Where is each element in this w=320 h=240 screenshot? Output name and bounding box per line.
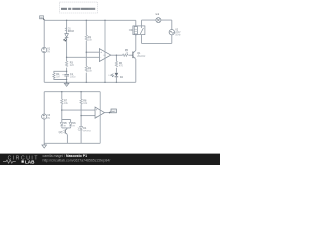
svg-text:LED: LED: [109, 75, 114, 77]
wire parallel pair ties: [62, 120, 71, 128]
svg-text:10k: 10k: [64, 102, 69, 105]
ground inner mark: [65, 84, 68, 86]
svg-text:9V: 9V: [47, 117, 50, 120]
wire bottom rail: [44, 81, 136, 83]
wire opamp U1 minus input: [67, 56, 100, 58]
wire opamp U2 plus input: [62, 109, 95, 111]
node flag out: [109, 109, 117, 113]
wire lower riser1: [61, 92, 63, 120]
voltage source V3: [42, 114, 51, 120]
voltage source V1: [42, 47, 51, 53]
svg-text:+: +: [96, 108, 98, 112]
svg-text:50Hz: 50Hz: [175, 34, 181, 36]
svg-text:D2: D2: [120, 76, 124, 79]
svg-text:1M: 1M: [56, 75, 59, 78]
svg-text:+: +: [100, 50, 102, 54]
wire opamp U2 minus input: [81, 115, 95, 117]
svg-text:L1: L1: [156, 12, 160, 16]
svg-text:IR: IR: [73, 126, 76, 128]
svg-text:10k: 10k: [83, 102, 88, 105]
svg-text:100u: 100u: [70, 76, 76, 79]
photodiode D4: [78, 127, 92, 133]
phototransistor Q2: [59, 128, 68, 143]
wire relay switch top: [141, 20, 143, 28]
wire relay coil to Q1 collector: [135, 35, 137, 36]
resistor R1: [85, 35, 93, 41]
ground lower: [42, 143, 47, 148]
resistor R6: [115, 61, 123, 67]
wire lower bottom rail: [44, 142, 100, 144]
svg-text:IR: IR: [64, 126, 67, 128]
resistor R5: [123, 49, 129, 57]
svg-text:camila.magni / Nascosto P1: camila.magni / Nascosto P1: [43, 154, 88, 158]
svg-text:LAB: LAB: [25, 160, 35, 165]
svg-text:BPW34: BPW34: [83, 130, 91, 132]
junction node dots: [61, 20, 117, 117]
wire opamp U1 plus input: [86, 51, 99, 53]
svg-text:10k: 10k: [88, 39, 93, 42]
resistor R3: [65, 61, 74, 67]
svg-text:10k: 10k: [88, 70, 93, 73]
footer bar: [0, 154, 220, 165]
ground main: [64, 82, 69, 86]
svg-text:9V: 9V: [47, 50, 50, 53]
wire top rail: [44, 19, 136, 21]
LED D2: [109, 73, 124, 79]
transistor Q1: [133, 51, 146, 60]
svg-text:-: -: [100, 56, 101, 60]
resistor R8: [80, 99, 88, 105]
svg-text:IR333: IR333: [68, 31, 75, 33]
wire left rail upper: [43, 20, 45, 82]
wire lower riser2: [80, 92, 82, 144]
wire top rail to relay coil: [135, 20, 137, 26]
svg-text:220: 220: [70, 64, 75, 67]
op-amp U2: [95, 107, 104, 118]
node flag +9V: [40, 16, 45, 20]
svg-text:1k: 1k: [125, 51, 128, 54]
svg-text:+: +: [62, 73, 64, 76]
svg-text:Q1: Q1: [137, 52, 141, 55]
svg-text:out: out: [112, 110, 115, 113]
svg-text:-: -: [96, 114, 97, 118]
op-amp U1: [99, 49, 110, 62]
wire opamp U1 supply: [104, 20, 106, 82]
wire lamp loop bottom: [142, 42, 172, 44]
wire lamp loop top: [142, 19, 172, 21]
LED D1 infrared: [64, 28, 75, 42]
lamp L1: [156, 12, 161, 22]
wire U2 output: [105, 112, 110, 114]
wire Q1 emitter: [135, 59, 137, 82]
AC source V2: [169, 29, 181, 37]
resistor R2: [85, 66, 93, 72]
diode D5: [60, 123, 67, 128]
note box: [60, 2, 98, 13]
wire riser x66.6: [66, 20, 68, 82]
wire Q1 collector: [135, 34, 137, 50]
wire R4 branch: [54, 71, 67, 79]
svg-text:http://circuitlab.com/c627a748: http://circuitlab.com/c627a748565z22krp8…: [43, 159, 111, 163]
capacitor C1: [62, 73, 76, 79]
wire U1 output: [111, 54, 123, 56]
wire lower left rail: [43, 92, 45, 144]
svg-text:470: 470: [119, 64, 124, 67]
wire relay switch bottom: [141, 35, 143, 44]
wire R5 to Q1 base: [128, 54, 133, 56]
diode D6: [69, 123, 76, 128]
wire lamp loop right: [171, 20, 173, 43]
resistor R7: [61, 99, 69, 105]
resistor R4: [53, 73, 60, 79]
wire LED branch: [115, 55, 117, 82]
relay RLY1: [129, 26, 145, 35]
wire opamp U2 supply: [99, 92, 101, 144]
wire riser x86.3: [85, 20, 87, 82]
wire lower top rail: [44, 91, 100, 93]
svg-text:2N2222: 2N2222: [137, 56, 146, 58]
